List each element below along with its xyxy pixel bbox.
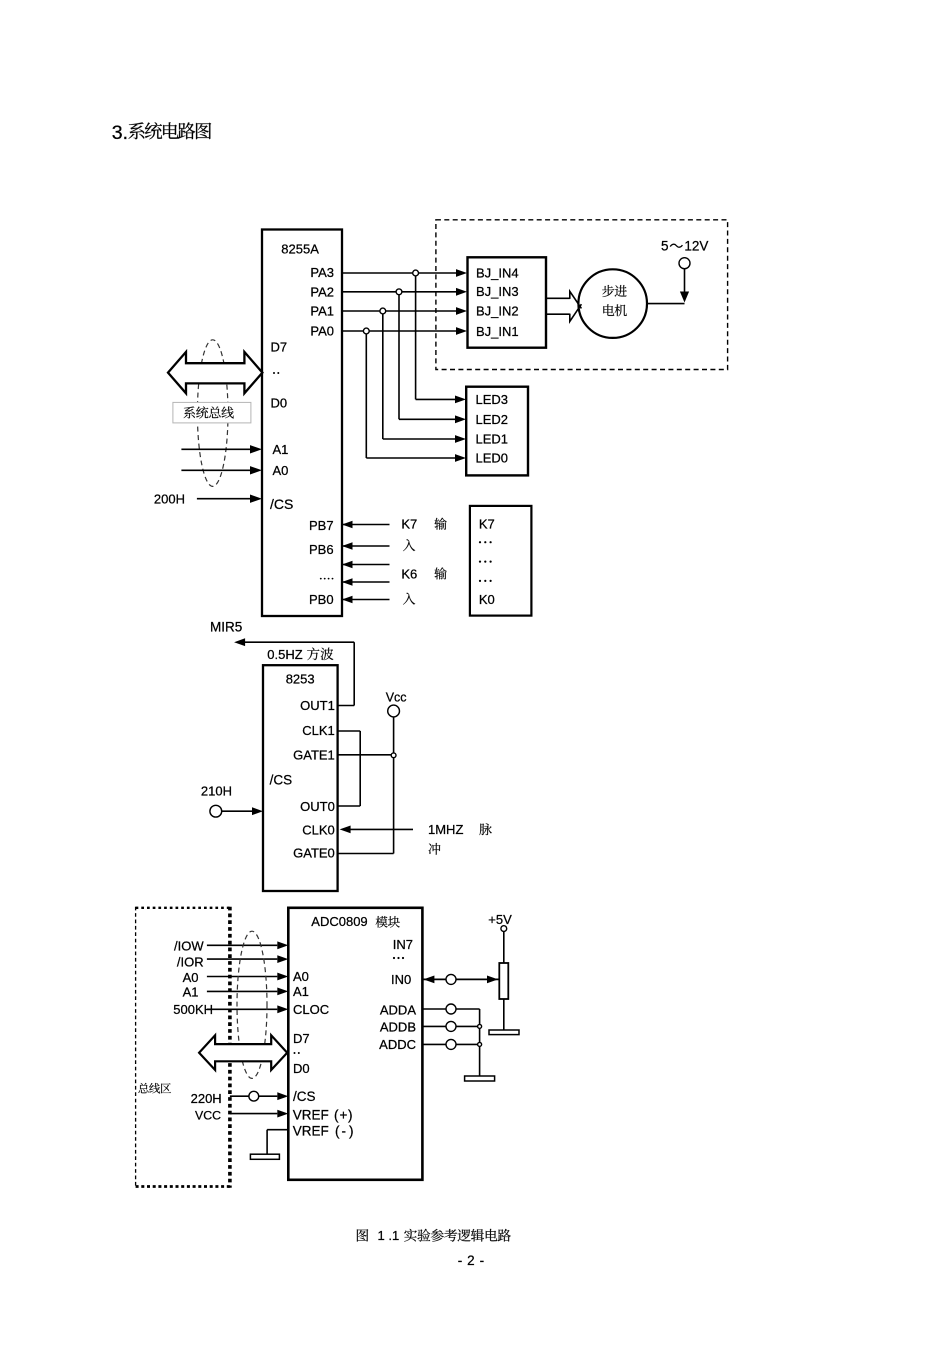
wire 220H to /CS with arrow (259, 1095, 278, 1097)
svg-text:PA3: PA3 (310, 265, 334, 280)
svg-text:A0: A0 (293, 969, 309, 984)
arrowhead IN0 left (423, 976, 434, 984)
wire motor to supply node (647, 303, 685, 305)
driver box BJ_IN (468, 257, 547, 347)
svg-text:200H: 200H (154, 492, 185, 507)
junction node GATE1/Vcc (391, 753, 396, 758)
wire OUT1 to MIR5 with arrow (234, 638, 245, 646)
svg-text:BJ_IN3: BJ_IN3 (476, 284, 519, 299)
wire /IOW with arrow (207, 944, 277, 946)
wire 200H to /CS with arrow (197, 498, 251, 500)
wire A0 with arrow (181, 469, 251, 471)
arrowhead into PB5 (342, 561, 353, 568)
svg-text:CLOC: CLOC (293, 1002, 329, 1017)
svg-text:12V: 12V (684, 238, 708, 253)
svg-text:LED3: LED3 (476, 392, 509, 407)
label 系统总线 (184, 406, 195, 418)
svg-text:(: ( (335, 1124, 340, 1139)
svg-text:220H: 220H (191, 1091, 222, 1106)
node circle ADDC (446, 1039, 456, 1049)
wire 500KH with arrow (207, 1008, 277, 1010)
node circle ADDB (446, 1021, 456, 1031)
svg-text:PA0: PA0 (310, 324, 334, 339)
svg-text:IN7: IN7 (393, 937, 413, 952)
svg-text:LED1: LED1 (476, 432, 509, 447)
wire K0 to PB0 (342, 599, 390, 601)
svg-text:BJ_IN2: BJ_IN2 (476, 304, 519, 319)
svg-text:0.5HZ: 0.5HZ (267, 647, 302, 662)
motor label 步进 (602, 285, 614, 297)
wire /IOR with arrow (207, 958, 277, 960)
label box 系统总线 (173, 402, 251, 423)
svg-text:K0: K0 (479, 592, 495, 607)
svg-text:Vcc: Vcc (386, 691, 407, 705)
dotted bus boundary right edge (228, 907, 232, 1188)
svg-text:BJ_IN4: BJ_IN4 (476, 266, 519, 281)
svg-text:OUT0: OUT0 (300, 799, 335, 814)
svg-text:VREF: VREF (293, 1124, 329, 1139)
dots row2 in K box (479, 561, 481, 563)
junction node ADDB (478, 1024, 482, 1028)
svg-text:A1: A1 (293, 984, 309, 999)
arrowhead into PB0 (342, 596, 353, 603)
svg-text:-: - (342, 1124, 347, 1139)
arrowhead into LED1 (455, 435, 466, 443)
wire 220H segment (230, 1095, 249, 1097)
ground bar R1 (489, 1030, 519, 1035)
node circle ADDA (446, 1004, 456, 1014)
svg-text:210H: 210H (201, 783, 232, 798)
junction node on PA3 (413, 270, 419, 276)
bus ellipse lower (237, 931, 267, 1078)
svg-text:/CS: /CS (270, 772, 293, 787)
junction node on PA2 (396, 289, 402, 295)
svg-text:K7: K7 (401, 517, 417, 532)
wire ADDB (422, 1025, 479, 1027)
svg-text:+5V: +5V (488, 912, 512, 927)
wire PA2 to BJ_IN3 (342, 291, 457, 293)
wire Vcc rail (393, 717, 395, 854)
svg-text:A1: A1 (183, 985, 199, 1000)
bus double arrow D7-D0 lower (199, 1035, 287, 1070)
wire K7 to PB7 (342, 524, 390, 526)
wire ADDA (422, 1008, 479, 1010)
svg-text:VCC: VCC (195, 1108, 221, 1122)
wire PA0 drop to LED0 (365, 334, 367, 458)
arrowhead 1MHZ into CLK0 (340, 826, 351, 834)
wire ADDC (422, 1043, 479, 1045)
svg-text:/CS: /CS (293, 1089, 316, 1104)
arrowhead PA3 into BJ_IN4 (456, 269, 467, 277)
ground bar VREF- (250, 1154, 279, 1159)
wire VREF- to ground (267, 1129, 288, 1131)
svg-text:CLK0: CLK0 (302, 823, 335, 838)
svg-text:+: + (340, 1107, 348, 1122)
label 入 row K6 (403, 593, 415, 605)
svg-text:BJ_IN1: BJ_IN1 (476, 324, 519, 339)
wire supply to motor (684, 269, 686, 295)
arrowhead into LED3 (455, 396, 466, 404)
wire 210H to /CS with arrow (222, 810, 252, 812)
svg-text:PA2: PA2 (310, 285, 334, 300)
svg-text:3.: 3. (112, 122, 128, 144)
svg-text:D7: D7 (293, 1031, 310, 1046)
bus arrow driver to motor (546, 297, 570, 299)
key box K7-K0 (470, 506, 532, 616)
IC U2 8253 body (263, 665, 338, 891)
junction node ADDC (478, 1042, 482, 1046)
bus double arrow D7-D0 (168, 352, 262, 393)
svg-text:/IOW: /IOW (174, 939, 204, 954)
svg-text:A0: A0 (273, 463, 289, 478)
arrowhead PA2 into BJ_IN3 (456, 288, 467, 296)
label 输 row K7 (434, 518, 446, 530)
U1 pin dots PB (320, 578, 322, 580)
arrowhead into PB1 (342, 578, 353, 585)
svg-text:ADC0809: ADC0809 (311, 914, 367, 929)
svg-text:PB7: PB7 (309, 518, 334, 533)
label 入 row K7 (403, 539, 415, 551)
wire to PB5 (342, 564, 390, 566)
arrowhead into LED0 (455, 454, 466, 462)
svg-text:GATE1: GATE1 (293, 747, 335, 762)
wire +5V to resistor (503, 932, 505, 964)
U1 pin dots D7-D0 (273, 372, 275, 374)
ground bar ADD (465, 1076, 495, 1081)
dots row3 in K box (479, 580, 481, 582)
wire CLK1-OUT0 loop (338, 730, 361, 732)
figure caption 图 1.1 实验参考逻辑电路 (357, 1229, 368, 1241)
arrowhead PA1 into BJ_IN2 (456, 307, 467, 315)
svg-text:PA1: PA1 (310, 304, 334, 319)
motor M1 步进电机 circle (578, 269, 647, 338)
supply terminal +5V (501, 926, 507, 932)
U3 pin dots D7-D0 (294, 1052, 296, 1054)
svg-text:ADDB: ADDB (380, 1020, 416, 1035)
arrowhead into LED2 (455, 415, 466, 423)
node circle Vcc (388, 705, 400, 717)
dashed enclosure stepper driver (436, 220, 728, 370)
svg-text:OUT1: OUT1 (300, 698, 335, 713)
wire GATE1 to Vcc rail (338, 754, 394, 756)
wire A0 with arrow (207, 976, 277, 978)
IC U3 ADC0809 body (288, 908, 422, 1180)
junction node on PA1 (380, 308, 386, 314)
wire PA3 drop to LED3 (415, 276, 417, 400)
label 脉 (479, 823, 491, 835)
arrowhead into PB6 (342, 542, 353, 549)
node circle 210H (210, 805, 222, 817)
motor label 电机 (603, 304, 614, 316)
svg-text:K6: K6 (401, 566, 417, 581)
wire PA1 to BJ_IN2 (342, 310, 457, 312)
svg-text:ADDA: ADDA (380, 1003, 416, 1018)
svg-text:/CS: /CS (270, 496, 293, 512)
junction node on PA0 (363, 328, 369, 334)
svg-text:CLK1: CLK1 (302, 723, 335, 738)
svg-text:K7: K7 (479, 517, 495, 532)
svg-text:8253: 8253 (286, 671, 315, 686)
svg-text:(: ( (334, 1107, 339, 1122)
dots row1 in K box (479, 541, 481, 543)
wire ADD common (479, 1009, 481, 1076)
U3 pin dots IN7-IN0 (393, 957, 395, 959)
label 冲 (429, 843, 441, 855)
svg-text:1 .1: 1 .1 (378, 1228, 400, 1243)
wire to PB6 (342, 545, 390, 547)
arrowhead supply down (680, 292, 689, 303)
svg-text:IN0: IN0 (391, 972, 411, 987)
node circle 220H (249, 1091, 259, 1101)
svg-text:MIR5: MIR5 (210, 620, 242, 635)
svg-text:): ) (348, 1107, 353, 1122)
wire GATE0 to Vcc rail (338, 853, 394, 855)
wire IN0 to divider (422, 978, 499, 980)
svg-text:LED2: LED2 (476, 412, 509, 427)
wire VCC to VREF+ with arrow (230, 1113, 277, 1115)
wire PA2 drop to LED2 (398, 295, 400, 420)
IC U1 8255A body (262, 230, 342, 617)
svg-text:D0: D0 (293, 1061, 310, 1076)
wire to PB1 (342, 581, 390, 583)
arrowhead into PB7 (342, 521, 353, 528)
svg-text:GATE0: GATE0 (293, 846, 335, 861)
svg-text:A0: A0 (183, 970, 199, 985)
wire PA1 drop to LED1 (382, 314, 384, 439)
svg-text:D7: D7 (271, 339, 288, 354)
svg-text:PB0: PB0 (309, 592, 334, 607)
node circle IN0 (446, 974, 456, 984)
svg-text:8255A: 8255A (281, 241, 319, 256)
svg-text:D0: D0 (271, 395, 288, 410)
wire A1 with arrow (181, 448, 251, 450)
label 输 row K6 (434, 567, 446, 579)
svg-text:ADDC: ADDC (379, 1037, 416, 1052)
svg-text:- 2 -: - 2 - (458, 1253, 485, 1268)
svg-text:VREF: VREF (293, 1107, 329, 1122)
svg-text:1MHZ: 1MHZ (428, 822, 463, 837)
label 总线区 (138, 1083, 148, 1093)
wire 1MHZ to CLK0 (349, 828, 413, 830)
svg-text:): ) (349, 1124, 354, 1139)
wire resistor to ground (503, 999, 505, 1030)
indicator box LED (466, 387, 528, 476)
dotted enclosure 总线区 (136, 907, 230, 909)
resistor R1 body (499, 963, 508, 999)
svg-text:/IOR: /IOR (177, 954, 204, 969)
arrowhead IN0 right (487, 976, 498, 984)
svg-text:5: 5 (661, 238, 669, 253)
arrowhead PA0 into BJ_IN1 (456, 327, 467, 335)
wire PA0 to BJ_IN1 (342, 330, 457, 332)
wire PA3 to BJ_IN4 (342, 272, 457, 274)
wire A1 with arrow (207, 990, 277, 992)
svg-text:PB6: PB6 (309, 542, 334, 557)
svg-text:A1: A1 (273, 442, 289, 457)
svg-text:LED0: LED0 (476, 451, 509, 466)
supply terminal circle (679, 258, 690, 269)
bus ellipse upper (197, 340, 228, 487)
